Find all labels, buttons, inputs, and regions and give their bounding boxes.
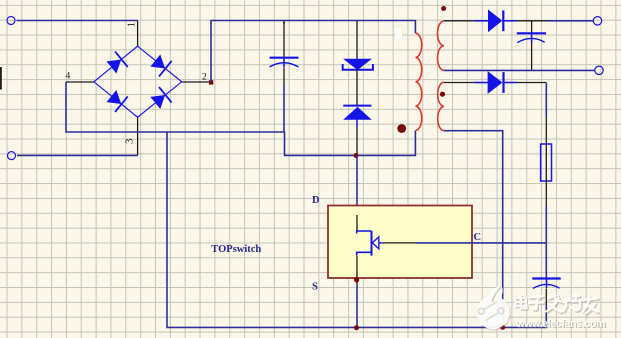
bridge rectifier diamond [94, 46, 182, 117]
svg-text:S: S [312, 282, 318, 293]
wire to output terminal 1 [546, 20, 594, 22]
output terminal 2 [595, 66, 603, 74]
bridge diode top-right [151, 56, 171, 77]
bridge rectifier pin 1 [137, 21, 139, 47]
input terminal (bottom left) [8, 152, 16, 160]
bridge diode bottom-left [107, 91, 127, 112]
wire left vertical to bottom rail [167, 132, 546, 327]
diode D2 cathode pin [517, 20, 546, 22]
wire C pin to right [416, 242, 547, 244]
wire down to resistor [545, 83, 547, 118]
blocking diode (clamp) [343, 106, 371, 120]
wire secondary2 bottom down to rail [444, 131, 503, 328]
transformer T1 secondary 2 [438, 82, 444, 131]
clamp middle pin [356, 70, 358, 106]
wire secondary1 bottom to terminal 2 [444, 69, 595, 71]
secondary2 top pin [444, 82, 474, 84]
svg-text:TOPswitch: TOPswitch [211, 244, 261, 255]
bridge rectifier pin 4 [66, 81, 94, 83]
wire resistor to capacitor C3 [545, 206, 547, 279]
resistor R1 [541, 144, 552, 181]
transformer T1 secondary 1 [438, 21, 444, 70]
zener clamp pin top [356, 21, 358, 60]
capacitor C2 [517, 33, 546, 43]
input terminal (top left) [7, 17, 15, 25]
zener diode VR1 [343, 59, 373, 70]
junction dot S rail [354, 325, 359, 330]
secondary1 top pin [444, 20, 474, 22]
svg-text:2: 2 [202, 73, 207, 83]
capacitor C2 pin bottom [531, 43, 533, 70]
capacitor C1 pin lower [283, 67, 285, 84]
wire D node down [356, 155, 358, 215]
wire node2 up and across top [211, 21, 415, 83]
junction dot S pin [354, 277, 359, 282]
junction node 2 [209, 80, 213, 84]
diode D3 [488, 72, 517, 93]
diode D2 [489, 10, 517, 31]
svg-text:1: 1 [127, 22, 138, 27]
bridge diode bottom-right [151, 87, 171, 108]
secondary 1 polarity dot [441, 6, 446, 11]
diode D3 cathode pin [517, 82, 546, 84]
capacitor C3 [532, 279, 560, 289]
MOSFET source lead [356, 256, 358, 285]
wire [17, 20, 138, 22]
diode D3 lead [474, 82, 488, 84]
watermark logo [476, 286, 511, 330]
C pin lead [379, 242, 383, 244]
bridge rectifier pin 3 [137, 117, 139, 155]
bridge diode top-left [107, 52, 127, 73]
wire S to rail [356, 285, 358, 327]
capacitor C1 pin upper [283, 21, 285, 25]
transformer primary polarity dot [397, 124, 406, 133]
svg-text:3: 3 [123, 138, 135, 144]
junction dot rail [500, 325, 505, 330]
wire node4 down and across [66, 82, 415, 155]
MOSFET drain lead [356, 215, 358, 231]
transformer T1 primary winding [416, 33, 422, 130]
resistor R1 pin bottom [545, 181, 547, 206]
wire [17, 154, 138, 156]
svg-text:D: D [312, 195, 320, 206]
svg-text:C: C [474, 232, 482, 243]
clamp bottom pin [356, 119, 358, 127]
bridge rectifier pin 2 [182, 81, 210, 83]
svg-text:4: 4 [66, 71, 71, 81]
svg-text:www.elecfans.com: www.elecfans.com [515, 318, 605, 330]
capacitor C2 pin top [531, 21, 533, 34]
diode D2 lead [474, 20, 489, 22]
junction dot clamp/topswitch node [354, 153, 359, 158]
resistor R1 pin top [545, 117, 547, 144]
capacitor C1 [270, 58, 299, 67]
output terminal 1 [593, 17, 601, 25]
capacitor C3 pin bottom [545, 288, 547, 305]
white square patch [396, 28, 403, 39]
secondary 2 polarity dot [440, 92, 445, 97]
MOSFET Q1 [357, 231, 379, 256]
TOPswitch U1 body [328, 206, 472, 279]
left edge artifact [0, 67, 2, 90]
